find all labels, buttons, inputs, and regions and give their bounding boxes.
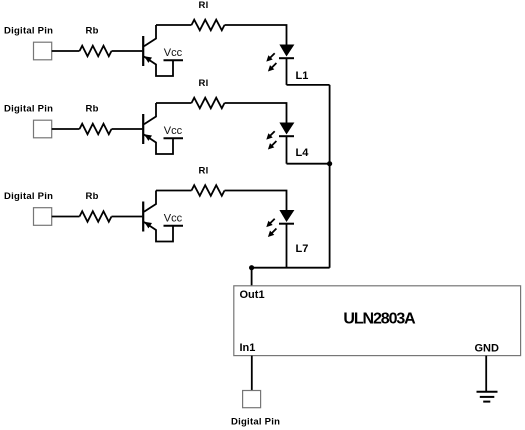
svg-text:In1: In1 <box>240 342 256 354</box>
svg-text:Rl: Rl <box>199 78 209 89</box>
Digital Pin label (input row 2) <box>4 104 53 115</box>
wire: In1 to digital pin pad <box>251 356 253 391</box>
svg-text:L1: L1 <box>296 70 309 82</box>
junction: row 2 to bus <box>327 161 332 166</box>
svg-text:Digital Pin: Digital Pin <box>4 26 53 37</box>
label Rb (row 2) <box>86 104 99 115</box>
wire: collector rail to Rl (row 3) <box>156 190 192 192</box>
Vcc supply symbol (row 1) <box>164 47 184 61</box>
label Rl (row 2) <box>199 78 209 89</box>
wire: Rl to LED anode (row 3) <box>225 191 287 211</box>
transistor Q2 (PNP, row 2) <box>143 103 173 154</box>
wire: row 2 cathode to bus <box>287 163 330 165</box>
wire: Rb to base of Q2 (row 2) <box>112 128 143 130</box>
wire: LED cathode down (row 3) <box>286 224 288 268</box>
wire: Rb to base of Q3 (row 3) <box>112 216 143 218</box>
Digital Pin label (input row 1) <box>4 26 53 37</box>
label Rl (row 1) <box>199 0 209 11</box>
wire: Rl to LED anode (row 1) <box>225 25 287 45</box>
label L4 <box>296 147 310 159</box>
svg-text:L4: L4 <box>296 147 310 159</box>
resistor Rl (row 1) <box>192 20 225 31</box>
wire: bottom rail to Out1 tap <box>252 267 330 269</box>
svg-text:L7: L7 <box>296 243 309 255</box>
wire: pad to Rb (row 3) <box>52 216 80 218</box>
label L7 <box>296 243 309 255</box>
wire: LED cathode down (row 2) <box>286 136 288 164</box>
digital pin pad (bottom) <box>243 391 261 408</box>
Vcc supply symbol (row 3) <box>164 212 184 226</box>
LED L1 (row 1) <box>266 45 294 72</box>
Vcc supply symbol (row 2) <box>164 125 184 139</box>
label Rb (row 3) <box>86 191 99 202</box>
resistor Rl (row 2) <box>192 98 225 109</box>
resistor Rb (row 1) <box>80 46 112 57</box>
pin label GND <box>475 343 500 355</box>
resistor Rb (row 2) <box>80 124 112 135</box>
wire: tap down to Out1 pin <box>251 268 253 286</box>
IC U1 ULN2803A (body) <box>234 286 521 356</box>
svg-text:Digital Pin: Digital Pin <box>231 417 280 428</box>
wire: pad to Rb (row 2) <box>52 128 80 130</box>
svg-text:ULN2803A: ULN2803A <box>343 310 416 327</box>
wire: row 1 cathode to bus <box>287 84 330 86</box>
wire: Rb to base of Q1 (row 1) <box>112 50 143 52</box>
LED L7 (row 3) <box>266 210 294 237</box>
resistor Rl (row 3) <box>192 185 225 196</box>
wire: collector rail to Rl (row 1) <box>156 24 192 26</box>
svg-text:GND: GND <box>475 343 500 355</box>
svg-text:Rb: Rb <box>86 26 99 37</box>
svg-text:Out1: Out1 <box>240 289 265 301</box>
digital pin pad (input row 2) <box>34 120 52 138</box>
LED L4 (row 2) <box>266 123 294 150</box>
svg-text:Rl: Rl <box>199 166 209 177</box>
pin label In1 <box>240 342 256 354</box>
svg-text:Digital Pin: Digital Pin <box>4 191 53 202</box>
digital pin pad (input row 3) <box>34 208 52 226</box>
resistor Rb (row 3) <box>80 211 112 222</box>
ground symbol <box>477 392 498 402</box>
svg-text:Digital Pin: Digital Pin <box>4 104 53 115</box>
transistor Q1 (PNP, row 1) <box>143 25 173 76</box>
wire: pad to Rb (row 1) <box>52 50 80 52</box>
label Rb (row 1) <box>86 26 99 37</box>
wire: Rl to LED anode (row 2) <box>225 103 287 123</box>
wire: GND pin down <box>485 356 487 391</box>
junction: Out1 tap <box>249 265 254 270</box>
svg-text:Vcc: Vcc <box>164 47 183 59</box>
label L1 <box>296 70 309 82</box>
digital pin pad (input row 1) <box>34 42 52 60</box>
svg-text:Rb: Rb <box>86 191 99 202</box>
wire: cathode bus (vertical) <box>329 85 331 268</box>
pin label Out1 <box>240 289 265 301</box>
svg-text:Rb: Rb <box>86 104 99 115</box>
Digital Pin label (input row 3) <box>4 191 53 202</box>
svg-text:Rl: Rl <box>199 0 209 11</box>
label Rl (row 3) <box>199 166 209 177</box>
svg-text:Vcc: Vcc <box>164 125 183 137</box>
label ULN2803A <box>343 310 416 327</box>
transistor Q3 (PNP, row 3) <box>143 191 173 242</box>
wire: collector rail to Rl (row 2) <box>156 102 192 104</box>
Digital Pin label (bottom) <box>231 417 280 428</box>
svg-text:Vcc: Vcc <box>164 212 183 224</box>
wire: LED cathode down (row 1) <box>286 58 288 85</box>
